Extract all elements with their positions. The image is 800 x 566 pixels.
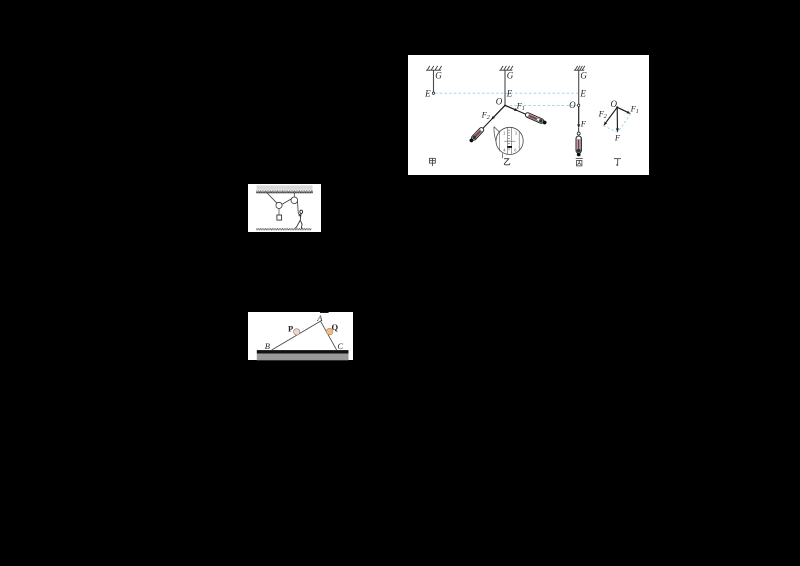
svg-text:4: 4 [503, 147, 505, 152]
svg-text:A: A [316, 313, 323, 323]
svg-text:E: E [506, 88, 513, 98]
svg-text:2: 2 [503, 131, 505, 136]
svg-text:G: G [580, 71, 587, 81]
svg-text:Q: Q [331, 322, 338, 332]
svg-text:B: B [264, 341, 269, 351]
svg-text:F: F [580, 119, 587, 129]
svg-text:E: E [579, 88, 586, 98]
svg-text:G: G [435, 71, 442, 81]
svg-text:F1: F1 [630, 103, 639, 115]
svg-text:6: 6 [514, 147, 516, 152]
svg-text:3: 3 [515, 131, 517, 136]
svg-text:C: C [337, 341, 343, 351]
svg-text:G: G [507, 71, 514, 81]
svg-text:O: O [569, 100, 576, 110]
svg-text:F2: F2 [481, 110, 490, 122]
svg-text:F1: F1 [516, 100, 525, 112]
svg-text:F: F [614, 133, 621, 143]
svg-text:F2: F2 [598, 108, 607, 120]
svg-text:P: P [288, 323, 293, 333]
svg-text:O: O [496, 96, 503, 106]
svg-text:E: E [424, 89, 431, 99]
